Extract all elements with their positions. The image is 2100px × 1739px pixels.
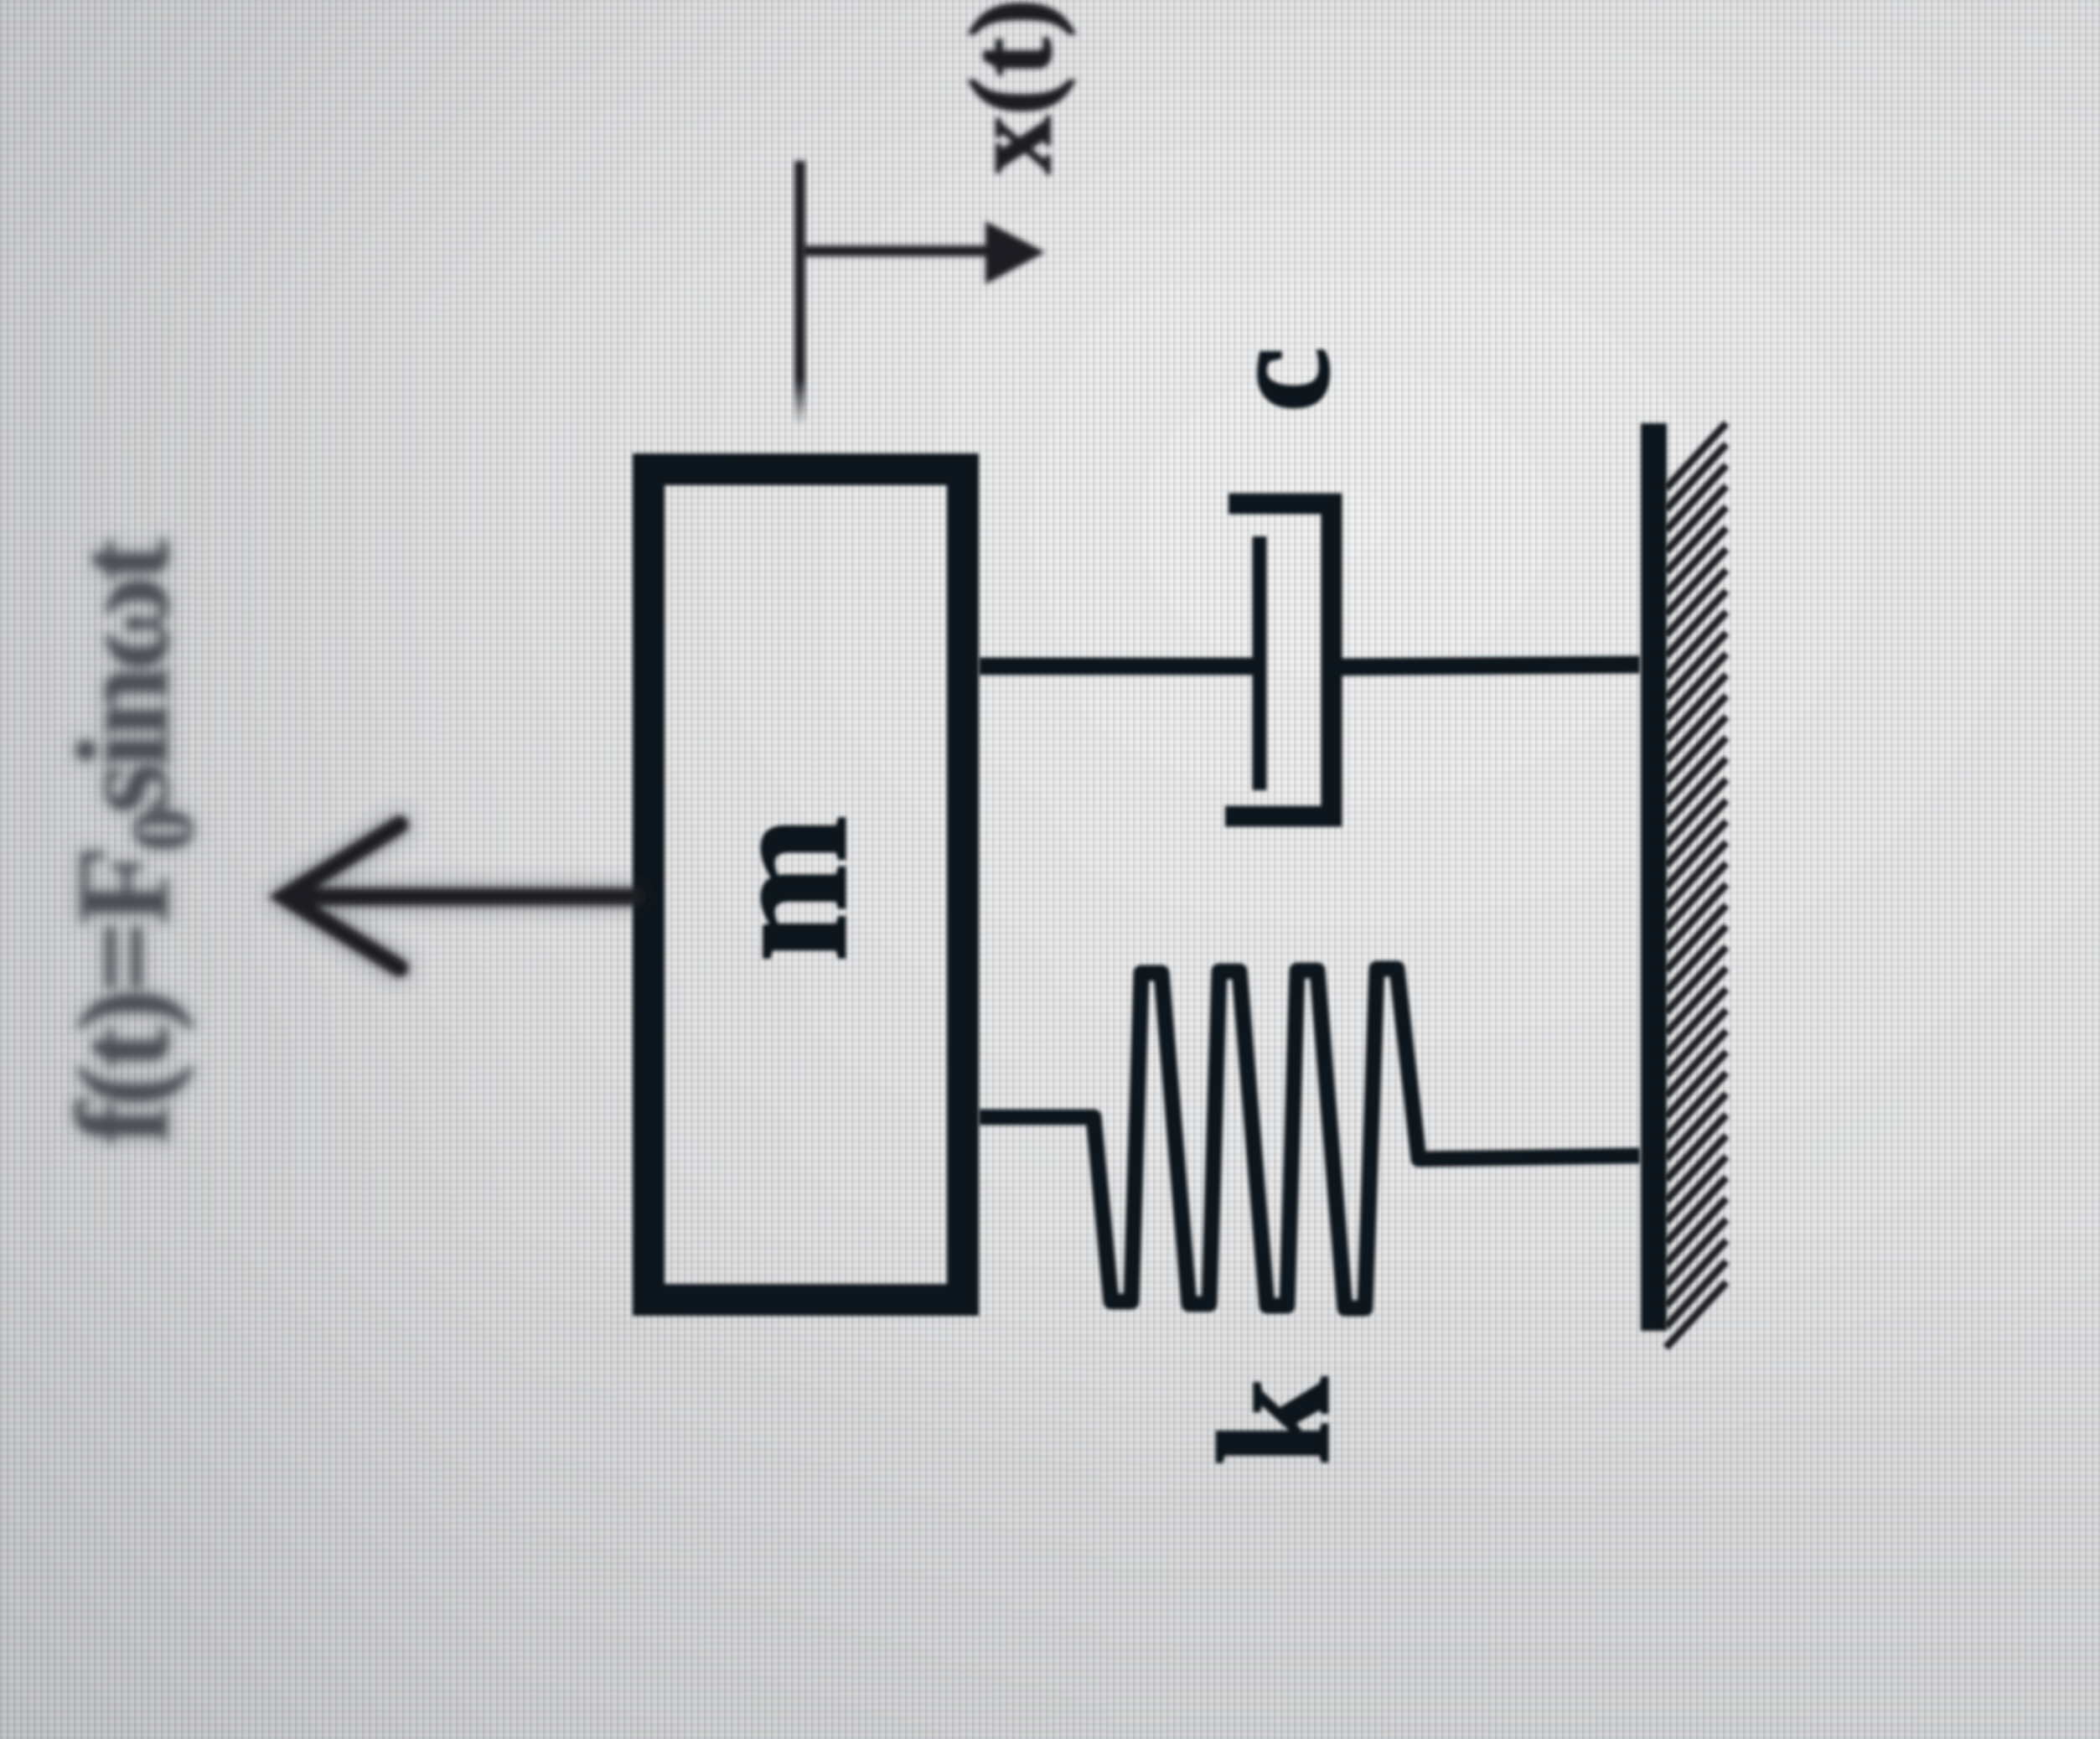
svg-text:f(t)=F0sinωt: f(t)=F0sinωt bbox=[50, 538, 211, 1145]
label m bbox=[689, 815, 883, 962]
label f(t)=F0sinwt halo bbox=[50, 538, 211, 1145]
svg-text:c: c bbox=[1197, 347, 1359, 412]
damper piston plate bbox=[1253, 536, 1267, 790]
label c bbox=[1197, 347, 1359, 412]
wire: reference rod above mass for x(t) bbox=[794, 161, 805, 426]
label x(t) bbox=[946, 0, 1076, 174]
damper cylinder cup bbox=[1225, 504, 1332, 816]
label f(t)=F0sinwt bbox=[50, 538, 211, 1145]
label k bbox=[1187, 1377, 1363, 1466]
wall (fixed support) bbox=[1641, 423, 1667, 1331]
svg-text:x(t): x(t) bbox=[946, 0, 1076, 174]
spring k (zigzag) bbox=[979, 969, 1640, 1308]
force arrow f(t) halo bbox=[285, 825, 634, 968]
displacement arrow x(t) bbox=[802, 221, 1045, 284]
damper c : rod from mass bbox=[979, 504, 1640, 816]
svg-text:k: k bbox=[1187, 1377, 1363, 1466]
wire: damper rod mass-to-piston bbox=[979, 658, 1254, 675]
svg-text:m: m bbox=[689, 815, 883, 962]
hatching on wall bbox=[1666, 423, 1726, 1348]
mass m (block) bbox=[649, 469, 963, 1300]
wire: damper rod cup-to-wall bbox=[1332, 665, 1640, 667]
force arrow f(t) bbox=[285, 825, 634, 968]
